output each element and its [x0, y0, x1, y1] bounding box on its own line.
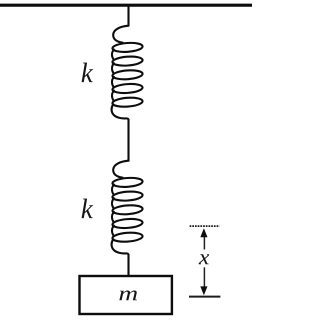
x measure: down arrow	[203, 267, 205, 287]
x measure: bottom reference line	[189, 296, 220, 298]
wire between springs	[127, 119, 129, 162]
label m	[119, 291, 137, 301]
label k (lower spring)	[82, 199, 94, 218]
wire from ceiling to spring 1	[127, 5, 129, 26]
label k (upper spring)	[82, 63, 94, 82]
ceiling	[0, 4, 252, 7]
wire from spring 2 to mass	[127, 254, 129, 277]
spring 1 (upper spring)	[112, 26, 143, 120]
mass block m	[80, 276, 172, 314]
x measure: top dashed reference line	[190, 225, 220, 227]
x measure: up arrow	[203, 237, 205, 250]
label x	[199, 254, 210, 264]
spring 2 (lower spring)	[112, 161, 143, 255]
